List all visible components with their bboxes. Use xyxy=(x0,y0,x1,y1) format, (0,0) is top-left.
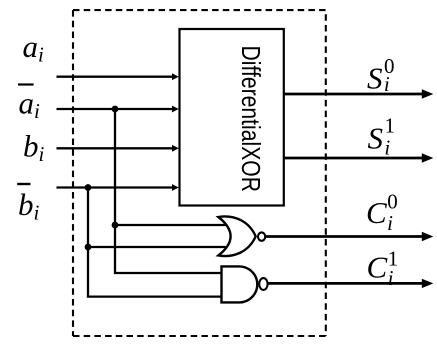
junction on ~b_i vertical (NOR branch) xyxy=(85,244,92,251)
wire ~a_i input xyxy=(57,106,179,113)
nor gate G1 body xyxy=(218,216,255,256)
wire a_i input xyxy=(57,73,179,80)
svg-text:ai: ai xyxy=(19,86,41,124)
nand gate G2 output bubble xyxy=(259,278,267,290)
dashed enclosure border xyxy=(73,10,326,336)
wire C_i^0 output xyxy=(266,232,434,241)
svg-text:S1i: S1i xyxy=(368,114,396,160)
svg-text:bi: bi xyxy=(23,129,45,167)
overline of a_i (bar) xyxy=(18,83,34,85)
overline of b_i (bar) xyxy=(17,183,30,185)
wire S_i^1 output xyxy=(284,153,434,162)
wire b_i input xyxy=(57,145,179,152)
wire ~a_i vertical drop xyxy=(115,109,223,273)
wire ~b_i input xyxy=(57,184,179,191)
nor gate G1 output bubble xyxy=(258,232,265,240)
svg-text:ai: ai xyxy=(23,29,45,67)
wire S_i^0 output xyxy=(284,89,434,98)
nand gate G2 body xyxy=(222,266,258,302)
svg-text:DifferentialXOR: DifferentialXOR xyxy=(235,46,264,193)
svg-text:bi: bi xyxy=(18,187,40,225)
svg-text:S0i: S0i xyxy=(367,54,395,96)
wire ~b_i to NOR bottom input xyxy=(88,246,232,248)
svg-text:C0i: C0i xyxy=(366,190,398,236)
wire ~a_i to NOR top input xyxy=(115,224,231,226)
junction on ~a_i vertical (NOR branch) xyxy=(112,222,119,229)
block U1 DifferentialXOR box xyxy=(180,29,284,206)
junction on ~a_i wire xyxy=(112,106,119,113)
wire C_i^1 output xyxy=(268,279,433,288)
wire ~b_i vertical drop xyxy=(88,188,223,297)
junction on ~b_i wire xyxy=(85,184,92,191)
svg-text:C1i: C1i xyxy=(367,246,399,290)
